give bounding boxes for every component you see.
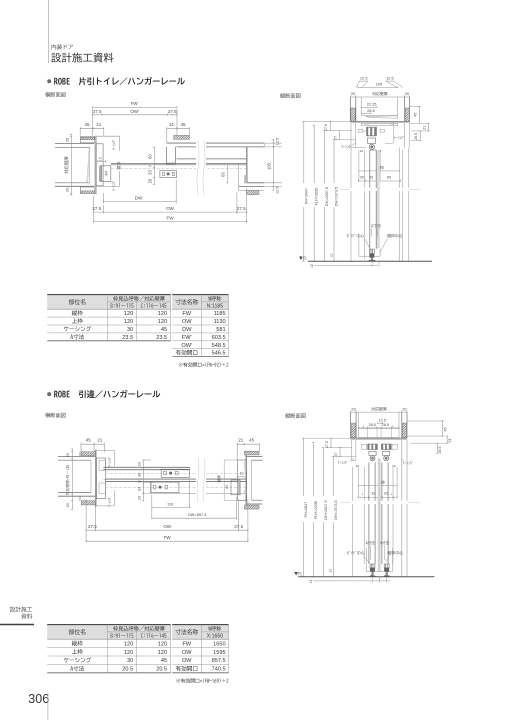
svg-text:60: 60 — [148, 154, 153, 159]
vertical section 1: casing label right — [392, 122, 394, 143]
svg-text:45: 45 — [84, 122, 90, 127]
svg-text:27.5: 27.5 — [92, 206, 101, 211]
svg-text:OW': OW' — [181, 343, 192, 349]
vertical section 1: FL line — [308, 260, 432, 262]
vertical section 1: DH2 dim line — [333, 140, 335, 261]
vertical section 1: dim 105 — [358, 87, 398, 89]
svg-text:DH=2007.5: DH=2007.5 — [324, 500, 328, 519]
plan view 2: dim 27.5 OW 27.5 — [85, 499, 87, 542]
svg-text:27.5: 27.5 — [88, 524, 97, 529]
plan view 1: door panel lines — [177, 158, 247, 160]
svg-text:12: 12 — [310, 264, 314, 268]
plan view 1: bottom-right casing hatch — [247, 191, 259, 195]
svg-text:10: 10 — [98, 157, 102, 161]
svg-text:105: 105 — [376, 81, 383, 86]
svg-text:FW: FW — [164, 535, 172, 540]
plan view 2: right wall stub — [244, 451, 259, 455]
svg-text:33: 33 — [138, 473, 142, 477]
svg-text:21: 21 — [96, 122, 102, 127]
svg-text:FW: FW — [182, 641, 191, 647]
table column lines — [106, 295, 108, 341]
table header texts — [69, 299, 86, 305]
table header bottom line — [47, 638, 170, 640]
vertical section 2: door 1 panel lines — [368, 463, 370, 564]
dimension table header texts — [175, 299, 198, 305]
table bottom border — [47, 340, 170, 342]
plan view 2: casing labels left — [108, 457, 111, 467]
svg-text:17: 17 — [330, 253, 334, 257]
vertical section 1: left wall column — [349, 97, 351, 121]
svg-text:OW: OW — [182, 319, 192, 325]
dimension table sub-header divider — [201, 301, 228, 303]
vertical section 1: door panel lines — [369, 150, 371, 249]
svg-text:DW: DW — [182, 327, 192, 333]
vertical section 1: sub-floor line — [314, 264, 378, 266]
vertical section 1: DH dim line — [324, 131, 326, 262]
plan view 1: wall end vertical — [89, 147, 91, 183]
vertical section 2: left wall column — [350, 412, 352, 438]
plan view 2: right frame bracket — [224, 459, 237, 461]
dimension table top border — [172, 294, 228, 296]
table bottom border — [47, 672, 170, 674]
svg-text:8: 8 — [138, 481, 142, 483]
svg-text:10: 10 — [392, 464, 396, 468]
svg-text:22.25: 22.25 — [367, 101, 377, 106]
dimension table header texts — [175, 629, 198, 635]
svg-text:26.5: 26.5 — [414, 133, 418, 140]
svg-text:28.5: 28.5 — [382, 423, 389, 427]
svg-text:120: 120 — [158, 319, 167, 325]
svg-text:20: 20 — [405, 91, 410, 96]
svg-text:OW: OW — [166, 206, 175, 211]
vertical section 1: hanger bracket — [367, 138, 375, 143]
svg-text:FH=2647: FH=2647 — [304, 502, 308, 518]
dimension table bottom border — [172, 672, 228, 674]
svg-text:33: 33 — [138, 487, 142, 491]
dimension table row lines — [172, 316, 228, 318]
plan view 1: casing label top-left — [112, 140, 115, 150]
label 横断面図 1 — [45, 92, 65, 97]
svg-text:45: 45 — [249, 438, 255, 443]
svg-text:66: 66 — [221, 172, 226, 177]
plan view 1: door edge bar — [100, 167, 102, 181]
plan view 2: right jamb frame — [246, 451, 248, 510]
vertical section 1: break marks — [344, 188, 436, 191]
svg-text:N:1185: N:1185 — [207, 304, 223, 310]
svg-text:45: 45 — [444, 427, 448, 431]
section heading ROBE 引違／ハンガーレール — [54, 390, 160, 398]
vertical section 2: dim 20 kabeatsu 20 top — [351, 411, 407, 413]
section heading ROBE 片引トイレ／ハンガーレール — [54, 77, 185, 85]
table header fill — [47, 625, 170, 640]
vertical section 2: frame lines — [352, 467, 354, 577]
svg-text:120: 120 — [158, 650, 167, 656]
plan view 1: door leaf in wall — [87, 148, 89, 183]
svg-text:20: 20 — [66, 503, 70, 507]
svg-text:10: 10 — [240, 472, 244, 476]
dimension table header fill — [172, 295, 228, 310]
vertical section 1: jamb gray band — [377, 150, 380, 248]
vertical section 2: floor guide 2 — [384, 564, 389, 568]
svg-text:DW=857.5: DW=857.5 — [188, 512, 207, 517]
table body texts — [72, 641, 83, 646]
plan view 1: door center dashed line — [111, 167, 247, 169]
vertical section 1: right stacked dims 45 21 26.5 — [410, 106, 421, 108]
vertical section 1: frame left line — [350, 148, 352, 262]
vertical section 1: dim label gap — [301, 183, 338, 207]
svg-text:10: 10 — [356, 464, 360, 468]
svg-text:60: 60 — [387, 175, 391, 179]
dimension table sub-header divider — [201, 631, 228, 633]
svg-text:120: 120 — [124, 319, 133, 325]
svg-text:45: 45 — [161, 658, 167, 664]
svg-text:45: 45 — [413, 113, 417, 117]
vertical section 1: A dimension label — [371, 224, 381, 228]
vertical section 2: door 2 panel lines — [381, 463, 383, 564]
label 横断面図 2 — [45, 413, 65, 418]
svg-text:12.5: 12.5 — [276, 187, 280, 194]
svg-text:1185: 1185 — [214, 311, 226, 317]
table sub-header divider — [107, 631, 170, 633]
svg-text:33: 33 — [369, 175, 373, 179]
svg-text:12.5: 12.5 — [276, 138, 280, 145]
vertical section 2: FL line — [298, 576, 434, 578]
vertical section 2: rail side brackets — [362, 444, 367, 449]
vertical section 1: roller — [369, 144, 374, 149]
svg-text:20.5: 20.5 — [122, 667, 133, 673]
vertical section 1: header band — [361, 123, 398, 125]
vertical section 1: dim 12.5 12.5 top — [360, 80, 369, 82]
plan view 1: bottom-left casing — [80, 187, 95, 193]
svg-text:27.5: 27.5 — [325, 441, 329, 448]
svg-text:20: 20 — [66, 453, 70, 457]
svg-text:DW: DW — [182, 658, 192, 664]
vertical section 2: wall lines to floor — [401, 440, 403, 577]
vertical section 2: A dimension labels — [366, 541, 375, 544]
svg-text:12.5: 12.5 — [379, 418, 386, 422]
table top border — [47, 624, 170, 626]
sidebar tab 設計施工資料 — [10, 607, 32, 612]
svg-text:23.5: 23.5 — [156, 335, 167, 341]
formula note — [179, 362, 229, 367]
svg-text:23: 23 — [138, 462, 142, 466]
svg-text:X:1650: X:1650 — [207, 634, 224, 640]
svg-text:548.5: 548.5 — [212, 343, 226, 349]
vertical section 2: break marks — [344, 501, 434, 504]
vertical section 1: rail plate wedge — [366, 116, 398, 118]
svg-text:FW: FW — [182, 311, 191, 317]
plan view 2: dim 21 45 right — [237, 443, 259, 445]
vertical section 1: guide center label — [347, 234, 364, 238]
svg-text:1595: 1595 — [213, 650, 225, 656]
plan view 2: left wall dim line — [71, 449, 73, 510]
label 縦断面図 1 — [280, 93, 300, 98]
plan view 2: center dashed lines — [105, 473, 247, 475]
plan view 1: dim 27.5 OW 27.5 bottom — [93, 196, 95, 223]
plan view 1: left wall top edge lines — [55, 143, 94, 145]
plan view 1: dim line 27.5 OW-prime 27.5 — [93, 114, 178, 116]
page title 設計施工資料 — [51, 53, 113, 63]
svg-text:26.5: 26.5 — [438, 447, 442, 454]
plan view 1: right dim 12.5 105 12.5 — [264, 142, 282, 144]
dimension table header bottom — [172, 638, 228, 640]
svg-text:20: 20 — [148, 178, 153, 183]
plan view 1: right wall lines — [167, 142, 264, 144]
page number rule — [47, 693, 49, 720]
svg-text:DW: DW — [135, 195, 143, 200]
plan view 1: casing label bottom-left — [112, 181, 115, 191]
formula note — [176, 678, 228, 683]
svg-text:20: 20 — [360, 175, 364, 179]
vertical section 2: left dims 27.5 27 — [304, 437, 351, 439]
svg-text:OW: OW — [182, 650, 192, 656]
vertical section 2: rail block 2 — [381, 444, 391, 450]
svg-text:27: 27 — [334, 136, 338, 140]
vertical section 1: guide bracket — [358, 237, 360, 256]
svg-text:20: 20 — [351, 91, 356, 96]
plan view 2: left wall stub — [81, 452, 95, 456]
table header fill — [47, 295, 170, 310]
svg-text:21: 21 — [97, 438, 103, 443]
plan view 1: center dim stack 60 7 33 20 — [153, 147, 155, 184]
dimension table row lines — [172, 647, 228, 649]
plan view 1: dim line FW-prime top — [93, 107, 178, 109]
vertical section 1: uwaku label — [376, 166, 384, 170]
sidebar rule — [0, 624, 34, 626]
dimension table header fill — [172, 625, 228, 640]
vertical section 1: floor guide — [369, 249, 374, 254]
plan view 2: dim 110 — [151, 495, 153, 519]
svg-text:306: 306 — [28, 692, 49, 706]
svg-text:DH=2007.5: DH=2007.5 — [325, 187, 329, 206]
plan view 1: dim DW — [103, 193, 105, 204]
vertical section 1: hanger rail block — [366, 127, 377, 136]
plan view 1: right door stop — [244, 175, 246, 183]
plan view 2: rear door panel — [103, 466, 190, 468]
svg-text:33: 33 — [384, 492, 388, 496]
plan view 1: wall thickness dim line — [71, 135, 73, 196]
svg-text:27.5: 27.5 — [234, 524, 243, 529]
table header texts — [69, 629, 86, 635]
svg-text:17: 17 — [329, 569, 333, 573]
svg-text:10: 10 — [360, 149, 364, 153]
table row lines — [47, 647, 170, 649]
vertical section 2: roller 1 — [369, 451, 376, 455]
svg-text:21: 21 — [169, 122, 175, 127]
vertical section 2: sub-floor line — [314, 580, 391, 582]
vertical section 1: dim 20 kabeatsu 20 — [350, 96, 409, 98]
plan view 1: break band — [196, 141, 206, 195]
table sub-header divider — [107, 301, 170, 303]
plan view 1: tate-waku label — [117, 162, 121, 170]
plan view 2: dim 45 21 left — [81, 443, 104, 445]
vertical section 2: FH dim line — [303, 438, 305, 577]
section bullet — [47, 79, 51, 83]
vertical section 2: roller 2 — [383, 451, 390, 455]
svg-text:27.5: 27.5 — [237, 206, 246, 211]
svg-text:DH=1973.5: DH=1973.5 — [335, 187, 339, 206]
svg-text:1130: 1130 — [214, 319, 226, 325]
svg-text:603.5: 603.5 — [212, 335, 226, 341]
svg-text:120: 120 — [124, 650, 133, 656]
plan view 1: door pocket rectangle 44 — [100, 166, 111, 182]
svg-text:857.5: 857.5 — [212, 658, 226, 664]
svg-text:FLH=2035: FLH=2035 — [315, 188, 319, 206]
svg-text:FH=2647: FH=2647 — [304, 188, 308, 204]
svg-text:21: 21 — [238, 438, 244, 443]
vertical section 2: dim label gap — [301, 496, 338, 522]
plan view 1: right casing hatch — [174, 135, 190, 139]
table header bottom line — [47, 308, 170, 310]
vertical section 1: rail side pieces — [359, 129, 363, 132]
svg-text:12: 12 — [309, 580, 313, 584]
svg-text:DH=1973.5: DH=1973.5 — [334, 500, 338, 519]
vertical section 2: center stile gray band — [378, 458, 381, 572]
svg-text:105: 105 — [267, 162, 272, 170]
vertical section 1: door top — [370, 149, 376, 151]
plan view 1: vertical frame outer face — [94, 136, 96, 195]
plan view 1: top-left casing — [80, 137, 95, 143]
plan view 2: break band — [196, 458, 206, 502]
dimension table top border — [172, 624, 228, 626]
svg-text:45: 45 — [161, 327, 167, 333]
vertical section 1: FH dim line — [303, 121, 305, 261]
plan view 1: dim 45 21 left — [80, 128, 104, 130]
vertical section 2: rail block 1 — [367, 444, 377, 450]
vertical section 2: uwaku label — [377, 480, 385, 484]
svg-text:20.5: 20.5 — [156, 667, 167, 673]
svg-text:27: 27 — [334, 453, 338, 457]
vertical section 1: FLH dim line — [313, 126, 315, 262]
plan view 2: front door panel — [106, 478, 247, 480]
vertical section 2: frame center label — [387, 551, 402, 555]
svg-text:21: 21 — [448, 439, 452, 443]
plan view 2: right wallboard strips — [244, 461, 246, 470]
vertical section 2: dim 28.5 28.5 — [358, 427, 399, 429]
vertical section 1: casing label left — [342, 145, 352, 148]
svg-text:45: 45 — [180, 122, 186, 127]
dimension table bottom border — [172, 356, 228, 358]
plan view 2: center dim stack 23 33 8 33 23 — [143, 460, 145, 501]
plan view 1: dim 66 — [227, 165, 229, 183]
vertical section 1: jamb lines — [358, 150, 360, 181]
vertical section 2: floor guide 1 — [370, 564, 375, 568]
vertical section 2: rail mounting band — [358, 429, 399, 438]
table column lines — [106, 625, 108, 673]
svg-text:740.5: 740.5 — [212, 667, 226, 673]
svg-text:OW': OW' — [130, 109, 139, 114]
svg-text:44: 44 — [225, 485, 229, 489]
vertical section 2: guide center label — [347, 551, 364, 555]
vertical section 2: right wall column — [401, 412, 403, 438]
vertical section 2: recess lining — [357, 412, 359, 429]
svg-text:23.5: 23.5 — [122, 335, 133, 341]
svg-text:45: 45 — [86, 438, 92, 443]
plan view 1: dim FW bottom — [94, 221, 247, 223]
section bullet — [47, 392, 51, 396]
svg-text:21: 21 — [423, 126, 427, 130]
vertical section 2: DH2 dim line — [333, 457, 335, 577]
svg-text:581: 581 — [216, 327, 225, 333]
svg-text:OW: OW — [163, 524, 172, 529]
svg-text:27.5: 27.5 — [324, 124, 328, 131]
plan view 1: right wall column — [246, 147, 248, 183]
label 縦断面図 2 — [285, 413, 305, 418]
svg-text:FW': FW' — [131, 101, 139, 106]
plan view 2: front door guide box — [151, 482, 179, 493]
vertical section 1: right wall column — [404, 97, 406, 121]
svg-text:110: 110 — [167, 501, 174, 506]
vertical section 2: right stacked dims 45 21 26.5 — [407, 420, 445, 422]
dimension table column lines — [200, 625, 202, 673]
vertical section 2: guide bracket — [366, 548, 368, 572]
vertical section 1: left dims 27.5 and 27 — [304, 120, 351, 122]
vertical section 2: ceiling lines — [351, 437, 407, 439]
svg-text:27.5: 27.5 — [168, 109, 177, 114]
page left margin rule — [47, 0, 49, 63]
plan view 1: dim 21 45 right — [167, 128, 190, 130]
svg-text:30: 30 — [127, 327, 133, 333]
svg-text:1650: 1650 — [213, 641, 225, 647]
plan view 2: left jamb frame — [94, 450, 96, 507]
plan view 1: right wall bottom lines — [247, 182, 264, 184]
svg-text:120: 120 — [124, 641, 133, 647]
plan view 1: floor guide box — [160, 171, 177, 178]
svg-text:546.5: 546.5 — [212, 351, 226, 357]
plan view 2: rear door guide box — [161, 469, 189, 477]
svg-text:20: 20 — [64, 187, 69, 192]
svg-text:44: 44 — [103, 171, 108, 176]
table top border — [47, 294, 170, 296]
vertical section 2: DH dim line — [323, 448, 325, 577]
svg-text:20: 20 — [64, 137, 69, 142]
vertical section 1: recess lining — [360, 97, 362, 116]
plan view 1: door closing stile — [166, 147, 168, 165]
svg-text:30: 30 — [127, 658, 133, 664]
svg-text:12.5: 12.5 — [360, 75, 368, 80]
svg-text:FW: FW — [167, 216, 175, 221]
svg-text:28.5: 28.5 — [369, 423, 376, 427]
category label 内装ドア — [51, 44, 72, 49]
plan view 2: dim FW — [86, 540, 248, 542]
svg-text:27.5: 27.5 — [93, 109, 102, 114]
svg-text:12.5: 12.5 — [386, 75, 394, 80]
plan view 1: left wall bottom edge lines — [55, 182, 90, 184]
dimension table column lines — [200, 295, 202, 357]
vertical section 1: frame center label — [387, 234, 402, 238]
vertical section 2: left casing arm — [351, 440, 353, 461]
svg-text:120: 120 — [158, 311, 167, 317]
svg-text:23: 23 — [138, 496, 142, 500]
svg-text:33: 33 — [148, 170, 153, 175]
svg-text:FLH=2035: FLH=2035 — [314, 501, 318, 519]
svg-text:FW': FW' — [182, 335, 192, 341]
svg-text:33: 33 — [371, 492, 375, 496]
plan view 2: right door pocket — [231, 480, 240, 495]
dimension table header bottom — [172, 308, 228, 310]
table body texts — [72, 310, 83, 315]
table row lines — [47, 316, 170, 318]
plan view 2: dim DW — [236, 497, 238, 519]
svg-text:120: 120 — [124, 311, 133, 317]
vertical section 2: casing labels — [338, 461, 348, 464]
vertical section 1: wall face lines right — [404, 123, 406, 148]
plan view 2: right wall end vertical — [250, 460, 252, 500]
vertical section 1: ceiling lines — [350, 120, 409, 122]
svg-text:120: 120 — [158, 641, 167, 647]
vertical section 2: FLH dim line — [313, 443, 315, 577]
plan view 1: vertical frame body — [96, 144, 103, 186]
